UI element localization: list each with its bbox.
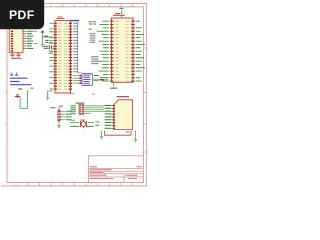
title block TITLE label: [90, 166, 98, 167]
wire reset loop: [20, 90, 28, 108]
ground GND3 under U3: [110, 88, 117, 89]
MCU U3 refdes label: [115, 13, 121, 14]
net label right of resonator: [95, 121, 99, 124]
label TX: [45, 40, 48, 41]
header J2 pin pads: [80, 105, 82, 106]
blue note text line 1: [10, 78, 28, 79]
MCU U3 left pin pads: [110, 21, 114, 22]
SWD port group box: [82, 73, 93, 85]
connector J3 pin pads: [58, 111, 60, 112]
MCU U3 right pin pads: [131, 21, 135, 22]
resonator left net label: [70, 126, 80, 127]
ground GND1: [41, 45, 45, 47]
frame zone ticks sides: [5, 48, 147, 152]
wire J1 row6 extension: [34, 43, 38, 45]
MCU U3 right net labels: [136, 20, 141, 23]
connector J3 body: [58, 110, 60, 121]
title block company row text: [90, 169, 112, 170]
net label mid green: [89, 29, 93, 30]
connector J1 net labels: [27, 31, 34, 32]
MCU U2 refdes label: [58, 17, 63, 18]
PDF badge: [0, 0, 44, 29]
sheet frame outer border: [1, 4, 147, 186]
SWD box text rows: [83, 75, 91, 76]
net label RESET green: [30, 88, 33, 89]
connector J3 label: [50, 107, 56, 108]
wire crystal to U2: [48, 46, 56, 48]
title block date row text: [90, 178, 114, 179]
label RX: [45, 42, 48, 43]
connector J3 VCC stub: [58, 107, 60, 110]
MCU U2 body: [55, 21, 71, 93]
net label card bottom: [126, 131, 130, 132]
resistor R2 label row: [89, 24, 93, 25]
wire resonator left: [70, 121, 79, 123]
header J2 right wires: [84, 106, 91, 114]
net label right of SWD A: [94, 75, 99, 76]
sheet frame inner border: [7, 7, 143, 183]
net label right of SWD B: [94, 80, 99, 81]
wire card to ground left: [101, 131, 103, 137]
frame zone ticks top: [16, 4, 133, 7]
connector J1 body: [9, 23, 23, 53]
wire card to ground right: [135, 130, 137, 140]
label FTDI: [44, 36, 49, 37]
net labels right of U2 dark: [91, 56, 99, 57]
capacitor C1 symbol: [11, 53, 15, 57]
frame zone ticks bottom: [16, 183, 133, 187]
microSD card CN1 body: [114, 100, 133, 130]
blue note text line 2: [10, 81, 20, 82]
title block drawn-by row text: [90, 175, 107, 176]
power flag VCC1: [40, 30, 44, 32]
microSD pin pads: [113, 105, 115, 107]
wire U3 bottom left: [93, 79, 109, 81]
resonator Y2 body: [81, 122, 86, 127]
wire TX to U2: [49, 41, 53, 43]
microSD net labels: [105, 105, 112, 106]
stray label near U2 bottom: [70, 93, 74, 94]
wire J3 to ground: [58, 121, 60, 126]
wires J2 to microSD: [91, 106, 105, 112]
connector J3 net labels: [66, 111, 72, 112]
ground GND4 left of card: [100, 137, 104, 139]
connector J3 wires: [60, 111, 65, 119]
power flag GND net left A: [10, 72, 13, 74]
net flag above U3: [119, 8, 123, 9]
ground GND6 under J3: [57, 126, 61, 128]
blue note text line 3: [10, 84, 32, 85]
power flag GND net left B: [15, 72, 18, 74]
microSD pin wires: [105, 106, 113, 129]
MCU U2 left pin pads: [54, 23, 58, 24]
MCU U2 right pin pads: [69, 23, 73, 24]
title block rev cell text: [137, 166, 143, 167]
SWD pin pads: [80, 75, 82, 77]
MCU U2 right net labels: [73, 22, 78, 25]
wire VCC branch down: [42, 37, 44, 45]
net labels mid dark: [90, 33, 96, 34]
power pin mark U3 bottom: [100, 79, 104, 81]
label XTAL2: [44, 48, 49, 49]
connector J1 pin stubs: [23, 31, 26, 48]
net label BLUETOOTH: [70, 20, 79, 21]
resistor R1 label row: [89, 21, 93, 22]
capacitor C2 symbol: [17, 53, 21, 57]
title block sheet row text: [90, 172, 104, 173]
wire J1 row1 extension: [34, 30, 38, 32]
MCU U2 pin name text: [58, 22, 61, 25]
title block column divider: [123, 174, 125, 183]
ground GND5 right of card: [134, 140, 138, 142]
net label near badge: [38, 25, 42, 26]
wire U3 below ground: [113, 82, 115, 87]
bus wire bluetooth: [78, 22, 82, 73]
stray label near J2 top: [92, 94, 95, 95]
resonator right net label: [87, 126, 94, 127]
wires U2 to SWD: [73, 76, 80, 84]
microSD holder bracket: [105, 131, 132, 136]
header J2 left net labels: [70, 105, 76, 106]
resonator Y2 plates: [81, 121, 87, 127]
wire VCC to U2: [43, 34, 53, 37]
label XTAL1: [44, 46, 49, 47]
crystal Y1: [50, 45, 52, 49]
header J2 label: [76, 103, 85, 104]
wire lower into U2: [49, 51, 53, 54]
wire U2 bottom to ground: [48, 91, 53, 98]
header J2 body: [79, 105, 84, 115]
MCU U3 pin name text: [115, 20, 118, 23]
pushbutton SW1: [15, 95, 20, 97]
title block outline: [88, 156, 143, 183]
MCU U3 left net labels: [102, 20, 109, 23]
wire resonator right: [88, 121, 94, 123]
connector J1 pin pads: [11, 31, 13, 32]
MCU U3 body: [112, 18, 134, 82]
ground GND2 under U2: [46, 98, 50, 100]
label RESET dark: [18, 88, 22, 89]
svg-text:PDF: PDF: [9, 8, 35, 22]
resonator Y2 labels: [71, 119, 76, 122]
microSD card label: [117, 96, 130, 97]
capacitor value labels: [11, 58, 22, 59]
MCU U2 left net labels: [50, 22, 53, 25]
title block row lines: [88, 169, 143, 177]
